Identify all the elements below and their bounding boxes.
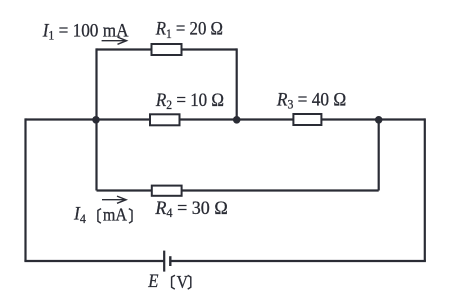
wire middle branch horizontal (26, 118, 425, 120)
current arrow I4 (102, 196, 126, 203)
wire right outer vertical (424, 118, 426, 261)
node junction middle (B) (233, 116, 241, 124)
resistor R3 (293, 114, 321, 125)
wire top branch right vertical (236, 48, 238, 119)
svg-text:I1 = 100 mA: I1 = 100 mA (42, 20, 129, 43)
battery E (164, 251, 170, 272)
wire left outer vertical (24, 118, 26, 261)
resistor R1 (152, 44, 182, 55)
wire top branch horizontal (97, 48, 237, 50)
wire top branch left vertical (95, 48, 97, 119)
svg-text:R4 = 30 Ω: R4 = 30 Ω (154, 197, 227, 220)
svg-text:E: E (147, 270, 158, 291)
svg-text:mA: mA (103, 205, 127, 225)
current arrow I1 (102, 37, 127, 44)
svg-text:R1 = 20 Ω: R1 = 20 Ω (155, 18, 223, 41)
svg-text:R2 = 10 Ω: R2 = 10 Ω (155, 89, 224, 112)
resistor R4 (152, 186, 182, 196)
svg-text:R3 = 40 Ω: R3 = 40 Ω (276, 89, 346, 112)
node junction left (A) (92, 116, 100, 124)
wire R4 branch right vertical (378, 120, 380, 191)
wire R4 branch left vertical (95, 120, 97, 191)
node junction right (C) (375, 116, 383, 124)
wire R4 branch horizontal (97, 189, 379, 191)
wire battery to bottom right (170, 260, 426, 262)
svg-text:V: V (177, 272, 188, 292)
wire bottom left to battery (24, 260, 164, 262)
resistor R2 (150, 114, 180, 125)
